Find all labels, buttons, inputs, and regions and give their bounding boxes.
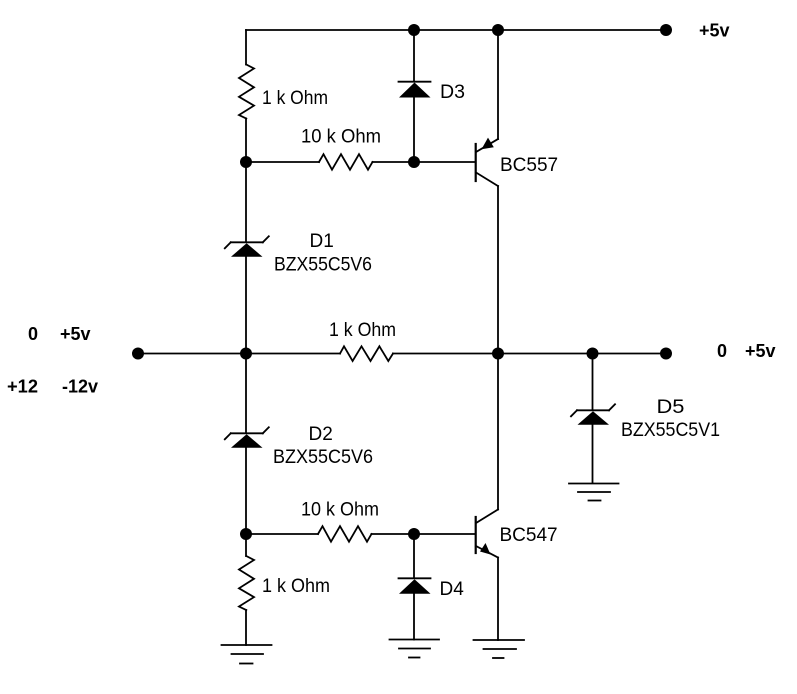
node terminal dot +5v top right bbox=[660, 24, 672, 36]
transistor Q2 collector diagonal bbox=[476, 510, 498, 524]
svg-text:D1: D1 bbox=[310, 231, 334, 252]
transistor Q2 emitter diagonal bbox=[476, 546, 498, 558]
transistor Q2 BC547 base bar bbox=[475, 517, 477, 553]
svg-text:1 k Ohm: 1 k Ohm bbox=[262, 88, 328, 109]
svg-text:1 k Ohm: 1 k Ohm bbox=[262, 576, 330, 597]
diode D4 wire above bbox=[413, 534, 415, 578]
diode D3 cathode bar bbox=[399, 81, 431, 83]
svg-text:+5v: +5v bbox=[60, 324, 91, 344]
svg-text:1 k Ohm: 1 k Ohm bbox=[329, 320, 396, 341]
transistor Q1 emitter arrow (PNP, points to base) bbox=[482, 138, 494, 150]
svg-text:BZX55C5V1: BZX55C5V1 bbox=[621, 420, 720, 441]
svg-text:BC547: BC547 bbox=[500, 525, 558, 546]
zener D5 triangle bbox=[578, 411, 610, 425]
wire top rail +5v bbox=[246, 29, 666, 31]
wire Q1 collector vertical down to mid rail and Q2 bbox=[497, 186, 499, 510]
wire Q2 emitter vertical to ground bbox=[497, 558, 499, 641]
diode D3 vertical wire top bbox=[413, 30, 415, 81]
resistor R 10 k Ohm top bbox=[319, 154, 373, 170]
zener D2 right tick bbox=[263, 427, 269, 433]
zener D2 cathode bar bbox=[231, 432, 263, 434]
diode D4 wire below bbox=[413, 594, 415, 640]
ground GND2 under D4 bbox=[390, 639, 440, 641]
wire mid rail right bbox=[393, 353, 666, 355]
svg-text:D5: D5 bbox=[657, 397, 685, 418]
svg-text:10 k Ohm: 10 k Ohm bbox=[301, 500, 379, 521]
svg-text:BZX55C5V6: BZX55C5V6 bbox=[274, 255, 372, 276]
wire below bottom-left resistor to ground bbox=[245, 610, 247, 645]
node junction dot bottom rail at D4 bbox=[408, 528, 420, 540]
node junction dot D3 bottom 10k row bbox=[408, 156, 420, 168]
zener D1 wire above bbox=[245, 162, 247, 242]
node junction dot top at D3 bbox=[408, 24, 420, 36]
node junction dot mid rail at zener column bbox=[240, 348, 252, 360]
node junction dot top at Q1 emitter bbox=[492, 24, 504, 36]
svg-text:D4: D4 bbox=[440, 579, 465, 600]
transistor Q1 emitter diagonal bbox=[476, 139, 498, 152]
ground GND1 bottom-left bbox=[222, 644, 272, 646]
zener D1 wire below bbox=[245, 257, 247, 354]
zener D1 cathode bar bbox=[231, 241, 263, 243]
wire bottom base rail (10 k Ohm row) bbox=[245, 533, 318, 535]
svg-text:+12: +12 bbox=[7, 377, 38, 397]
zener D1 triangle bbox=[231, 243, 263, 257]
diode D4 triangle bbox=[399, 579, 431, 593]
wire from bottom 10k to BC547 base bbox=[372, 533, 476, 535]
diode D3 triangle bbox=[399, 83, 431, 98]
node junction dot left at 10k row bbox=[240, 156, 252, 168]
ground GND3 under Q2 emitter bbox=[474, 639, 525, 641]
svg-text:D2: D2 bbox=[309, 424, 333, 445]
diode D4 cathode bar bbox=[399, 577, 431, 579]
svg-text:D3: D3 bbox=[440, 82, 465, 103]
ground GND4 under D5 bbox=[569, 483, 619, 485]
node terminal dot mid rail left bbox=[132, 348, 144, 360]
zener D1 left tick bbox=[225, 242, 231, 248]
resistor R 1 k Ohm middle bbox=[340, 346, 393, 361]
svg-text:BC557: BC557 bbox=[500, 155, 558, 176]
zener D2 wire above bbox=[245, 354, 247, 433]
wire from 10k to BC557 base bbox=[373, 161, 476, 163]
zener D5 right tick bbox=[609, 404, 615, 410]
wire base rail BC557 (10 k Ohm row) bbox=[246, 161, 319, 163]
zener D5 left tick bbox=[571, 410, 577, 416]
zener D5 cathode bar bbox=[577, 409, 609, 411]
svg-text:BZX55C5V6: BZX55C5V6 bbox=[273, 447, 373, 468]
svg-text:10 k Ohm: 10 k Ohm bbox=[301, 127, 381, 148]
svg-text:+5v: +5v bbox=[745, 341, 776, 361]
wire below top-left resistor bbox=[245, 119, 247, 163]
svg-text:-12v: -12v bbox=[62, 377, 98, 397]
svg-text:0: 0 bbox=[28, 324, 38, 344]
transistor Q1 BC557 base bar bbox=[475, 144, 477, 181]
node junction dot bottom rail left bbox=[240, 528, 252, 540]
node terminal dot mid rail right bbox=[660, 348, 672, 360]
wire left vertical top segment bbox=[245, 30, 247, 65]
resistor R top-left 1 k Ohm bbox=[239, 65, 254, 119]
node junction dot mid rail at D5 bbox=[587, 348, 599, 360]
wire mid rail left bbox=[138, 353, 340, 355]
zener D2 left tick bbox=[225, 433, 231, 439]
transistor Q2 emitter arrow (NPN, points out) bbox=[480, 543, 491, 555]
resistor R 10 k Ohm bottom bbox=[318, 526, 372, 542]
zener D2 triangle bbox=[231, 434, 263, 448]
wire Q1 emitter vertical to top rail bbox=[497, 30, 499, 139]
svg-text:+5v: +5v bbox=[699, 21, 730, 41]
diode D3 wire below bbox=[413, 98, 415, 163]
zener D1 right tick bbox=[263, 236, 269, 242]
zener D5 wire below bbox=[592, 425, 594, 483]
transistor Q1 collector diagonal bbox=[476, 173, 498, 187]
zener D2 wire below bbox=[245, 448, 247, 534]
svg-text:0: 0 bbox=[717, 341, 727, 361]
resistor R bottom-left 1 k Ohm wire above bbox=[245, 534, 247, 556]
zener D5 wire above bbox=[592, 354, 594, 410]
resistor R bottom-left 1 k Ohm bbox=[239, 556, 254, 610]
node junction dot mid rail at collector column bbox=[492, 348, 504, 360]
